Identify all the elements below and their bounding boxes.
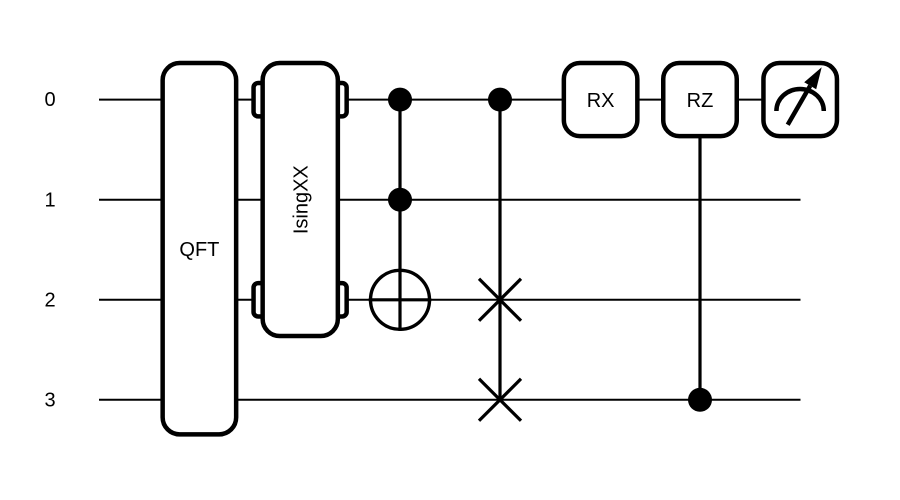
CSWAP control dot wire0: [488, 88, 512, 112]
RZ gate box: [663, 63, 737, 136]
svg-text:1: 1: [44, 189, 55, 211]
wire 3: [99, 399, 801, 401]
QFT gate box U1: [163, 63, 237, 434]
svg-text:RX: RX: [587, 90, 615, 112]
Toffoli target circle (wire 2): [371, 270, 430, 329]
svg-text:2: 2: [44, 289, 55, 311]
RX gate box: [564, 63, 638, 136]
IsingXX notch wire2 left: [254, 283, 267, 316]
Toffoli control dot wire0: [388, 88, 412, 112]
IsingXX notch wire0 left: [254, 83, 267, 116]
wire 2: [99, 299, 801, 301]
CRZ control line (x=700, wire0 box to wire3): [698, 120, 701, 400]
svg-text:RZ: RZ: [687, 90, 714, 112]
measurement box: [763, 63, 837, 136]
svg-text:3: 3: [44, 390, 55, 412]
svg-text:0: 0: [44, 89, 55, 111]
Toffoli control dot wire1: [388, 188, 412, 212]
CSWAP swap X wire3: [479, 379, 521, 421]
CSWAP control line: [498, 100, 501, 400]
CRZ control dot wire3: [688, 388, 712, 412]
IsingXX notch wire2 right: [333, 283, 347, 316]
wire 0: [99, 99, 801, 101]
svg-text:IsingXX: IsingXX: [291, 165, 313, 234]
measurement arrow shaft: [788, 86, 811, 125]
wire 1: [99, 199, 801, 201]
measurement gauge arc: [776, 89, 823, 111]
IsingXX gate box U2: [263, 63, 338, 336]
Toffoli control line: [398, 100, 401, 331]
svg-text:QFT: QFT: [179, 239, 219, 261]
CSWAP swap X wire2: [479, 279, 521, 321]
IsingXX notch wire0 right: [333, 83, 347, 116]
Toffoli target plus horizontal: [369, 298, 432, 301]
measurement arrow head: [804, 67, 822, 89]
